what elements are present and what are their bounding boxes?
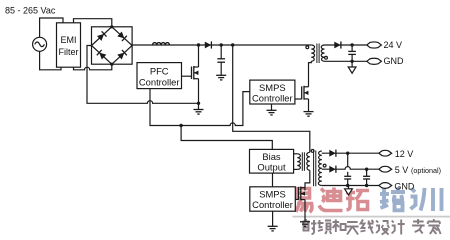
ground C1 <box>216 75 226 80</box>
T2 phase dot primary <box>311 150 314 153</box>
ground Q3 source <box>300 222 310 227</box>
wire EMI out top to bridge top corner <box>74 19 112 27</box>
wire bias to SMPS2 <box>272 173 274 187</box>
node branch <box>179 124 182 127</box>
bridge rectifier square <box>92 27 133 64</box>
node 12V cap <box>346 152 349 155</box>
T2 core 1 <box>301 152 303 171</box>
wire 24V rail <box>325 44 367 46</box>
EMI filter block <box>57 23 81 67</box>
bridge diamond <box>92 27 133 64</box>
MOSFET Q3 <box>295 187 305 222</box>
wire EMI out bottom to bridge bottom corner (hop over return line) <box>74 64 112 70</box>
wire return line from bridge <box>87 46 199 104</box>
SMPS controller 1 block <box>250 80 295 104</box>
connector 5V <box>379 166 392 172</box>
ground SMPS1 <box>271 104 273 110</box>
svg-text:Controller: Controller <box>252 92 293 103</box>
AC source V1 <box>33 37 47 51</box>
MOSFET Q1 <box>182 45 199 103</box>
inductor L1 <box>153 43 170 45</box>
node bridge top <box>110 25 113 28</box>
svg-text:EMI: EMI <box>60 35 76 45</box>
connector GND top <box>367 58 382 64</box>
transformer T2 bias winding W1 <box>297 154 300 170</box>
transformer T1 secondary <box>321 45 324 61</box>
connector 24V <box>367 42 382 48</box>
wire bias stubs <box>294 153 298 155</box>
svg-text:Controller: Controller <box>139 77 180 88</box>
wire GND line bottom <box>322 185 379 187</box>
node SMPS1 feed <box>231 43 234 46</box>
Bias output block <box>250 149 294 173</box>
node 24V cap <box>350 43 353 46</box>
node Q1 source <box>197 102 200 105</box>
svg-text:Filter: Filter <box>59 47 79 57</box>
connector 12V <box>379 150 392 156</box>
bridge diode D1 top-left <box>97 31 107 41</box>
diode D7 12V <box>329 150 335 157</box>
diode D6 24V <box>334 42 340 49</box>
node 5V cap <box>365 168 368 171</box>
svg-text:Controller: Controller <box>252 199 293 210</box>
svg-text:GND: GND <box>384 56 405 66</box>
node Q1 drain <box>197 43 200 46</box>
wire T1 secondary bottom / GND rail <box>325 60 367 62</box>
node GND cap <box>350 60 353 63</box>
svg-text:SMPS: SMPS <box>259 189 286 200</box>
capacitor C3 (from 12V) <box>347 153 349 166</box>
node bulk cap <box>220 43 223 46</box>
wire T1 primary bottom to Q2 drain <box>309 61 312 86</box>
diode D5 boost <box>205 42 211 49</box>
svg-text:24 V: 24 V <box>384 40 403 50</box>
ground Q2 source <box>304 112 314 117</box>
node bridge bottom <box>110 63 113 66</box>
T1 phase dot secondary <box>325 56 328 59</box>
SMPS controller 2 block <box>250 187 295 211</box>
diode D8 5V <box>329 166 335 173</box>
T1 core <box>316 44 318 64</box>
wire PFC bottom to SMPS1 (hop over line B) <box>150 89 250 126</box>
svg-text:(optional): (optional) <box>411 166 441 175</box>
ground triangle bottom <box>348 186 350 189</box>
capacitor C4 (from 5V) <box>366 169 368 176</box>
svg-text:12 V: 12 V <box>395 149 414 159</box>
T2 core 2 <box>313 151 315 187</box>
T2 phase dot secondary <box>323 164 326 167</box>
PFC controller block <box>137 63 182 89</box>
connector GND bottom <box>379 183 392 189</box>
wire bulk rail <box>132 44 311 46</box>
svg-text:85 - 265 Vac: 85 - 265 Vac <box>5 6 56 16</box>
node C4 gnd <box>365 184 368 187</box>
bridge diode D2 top-right <box>117 31 127 41</box>
bridge diode D4 bottom-right <box>117 50 127 60</box>
transformer T2 secondary W3 <box>318 151 321 186</box>
wire branch to bias block <box>181 126 272 150</box>
MOSFET Q2 <box>295 86 309 112</box>
svg-text:SMPS: SMPS <box>259 82 286 93</box>
ground triangle 24V <box>351 61 353 67</box>
wire 5V line (hop where C3 crosses) <box>322 167 379 170</box>
svg-text:Bias: Bias <box>262 151 281 162</box>
wire T2 primary bottom to Q3 drain <box>305 170 310 188</box>
svg-text:GND: GND <box>394 182 415 192</box>
transformer T1 primary <box>311 45 314 61</box>
wire line B: bulk to T2 primary <box>233 45 310 152</box>
T1 phase dot primary <box>306 46 309 49</box>
svg-text:5 V: 5 V <box>395 165 409 175</box>
wire 12V line <box>322 152 379 154</box>
watermark <box>293 187 450 235</box>
capacitor C2 <box>348 50 356 52</box>
ground Q1 source <box>198 103 200 109</box>
ground SMPS2 <box>272 211 274 226</box>
node C3 gnd <box>346 184 349 187</box>
wire AC bottom <box>40 51 61 70</box>
capacitor C1 bulk <box>220 45 222 59</box>
svg-text:Output: Output <box>257 162 286 173</box>
bridge diode D3 bottom-left <box>97 50 107 60</box>
wire AC top <box>40 18 63 37</box>
transformer T2 primary W2 <box>307 152 310 170</box>
svg-text:PFC: PFC <box>150 66 169 77</box>
